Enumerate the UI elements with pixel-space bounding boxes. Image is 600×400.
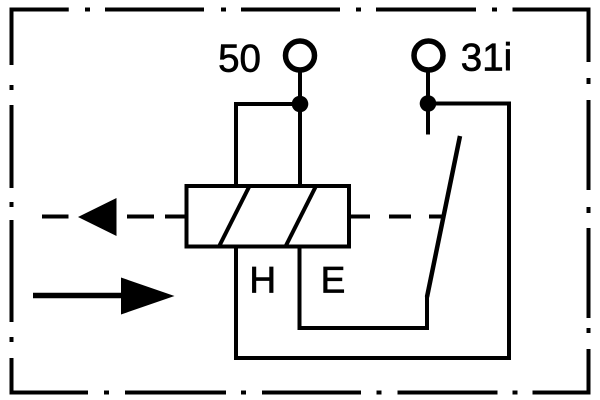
arrowhead of dashed actuation link (points left) bbox=[78, 198, 117, 236]
coil box K (rectangle with two slashes) bbox=[187, 186, 350, 247]
dashed actuation link, left of coil box bbox=[42, 215, 187, 219]
wire from terminal 31i down through node to fixed contact stub bbox=[426, 73, 430, 135]
svg-text:50: 50 bbox=[218, 38, 261, 81]
wire left vertical down to coil box top-left pin bbox=[234, 102, 238, 186]
wire from terminal 50 down to coil box top pin bbox=[298, 73, 302, 187]
frame top edge (dash-dot border) bbox=[10, 8, 591, 12]
arrowhead of solid direction arrow (points right) bbox=[121, 278, 175, 315]
svg-text:H: H bbox=[249, 260, 276, 301]
frame right edge (dash-dot border) bbox=[587, 8, 591, 395]
wire pin E: from coil box bottom down, right, up to switch lever pivot bbox=[300, 245, 428, 329]
svg-text:31i: 31i bbox=[461, 37, 512, 80]
arrow shaft, solid direction arrow bbox=[33, 293, 123, 299]
dashed actuation link, right of coil box to lever bbox=[349, 215, 444, 219]
frame left edge (dash-dot border) bbox=[10, 8, 14, 395]
junction node at terminal 31i bbox=[420, 95, 437, 112]
svg-text:E: E bbox=[321, 260, 346, 301]
terminal 50 (circle symbol) bbox=[286, 41, 315, 70]
wire horizontal at y=104 from node to left pin bbox=[236, 102, 300, 106]
junction node at terminal 50 bbox=[292, 96, 309, 113]
switch lever (movable contact, open) bbox=[427, 136, 460, 297]
frame bottom edge (dash-dot border) bbox=[10, 391, 591, 395]
terminal 31i (circle symbol) bbox=[414, 41, 443, 70]
wire loop: node 31i right, down right side, along bottom, up to coil pin H bbox=[236, 104, 509, 359]
